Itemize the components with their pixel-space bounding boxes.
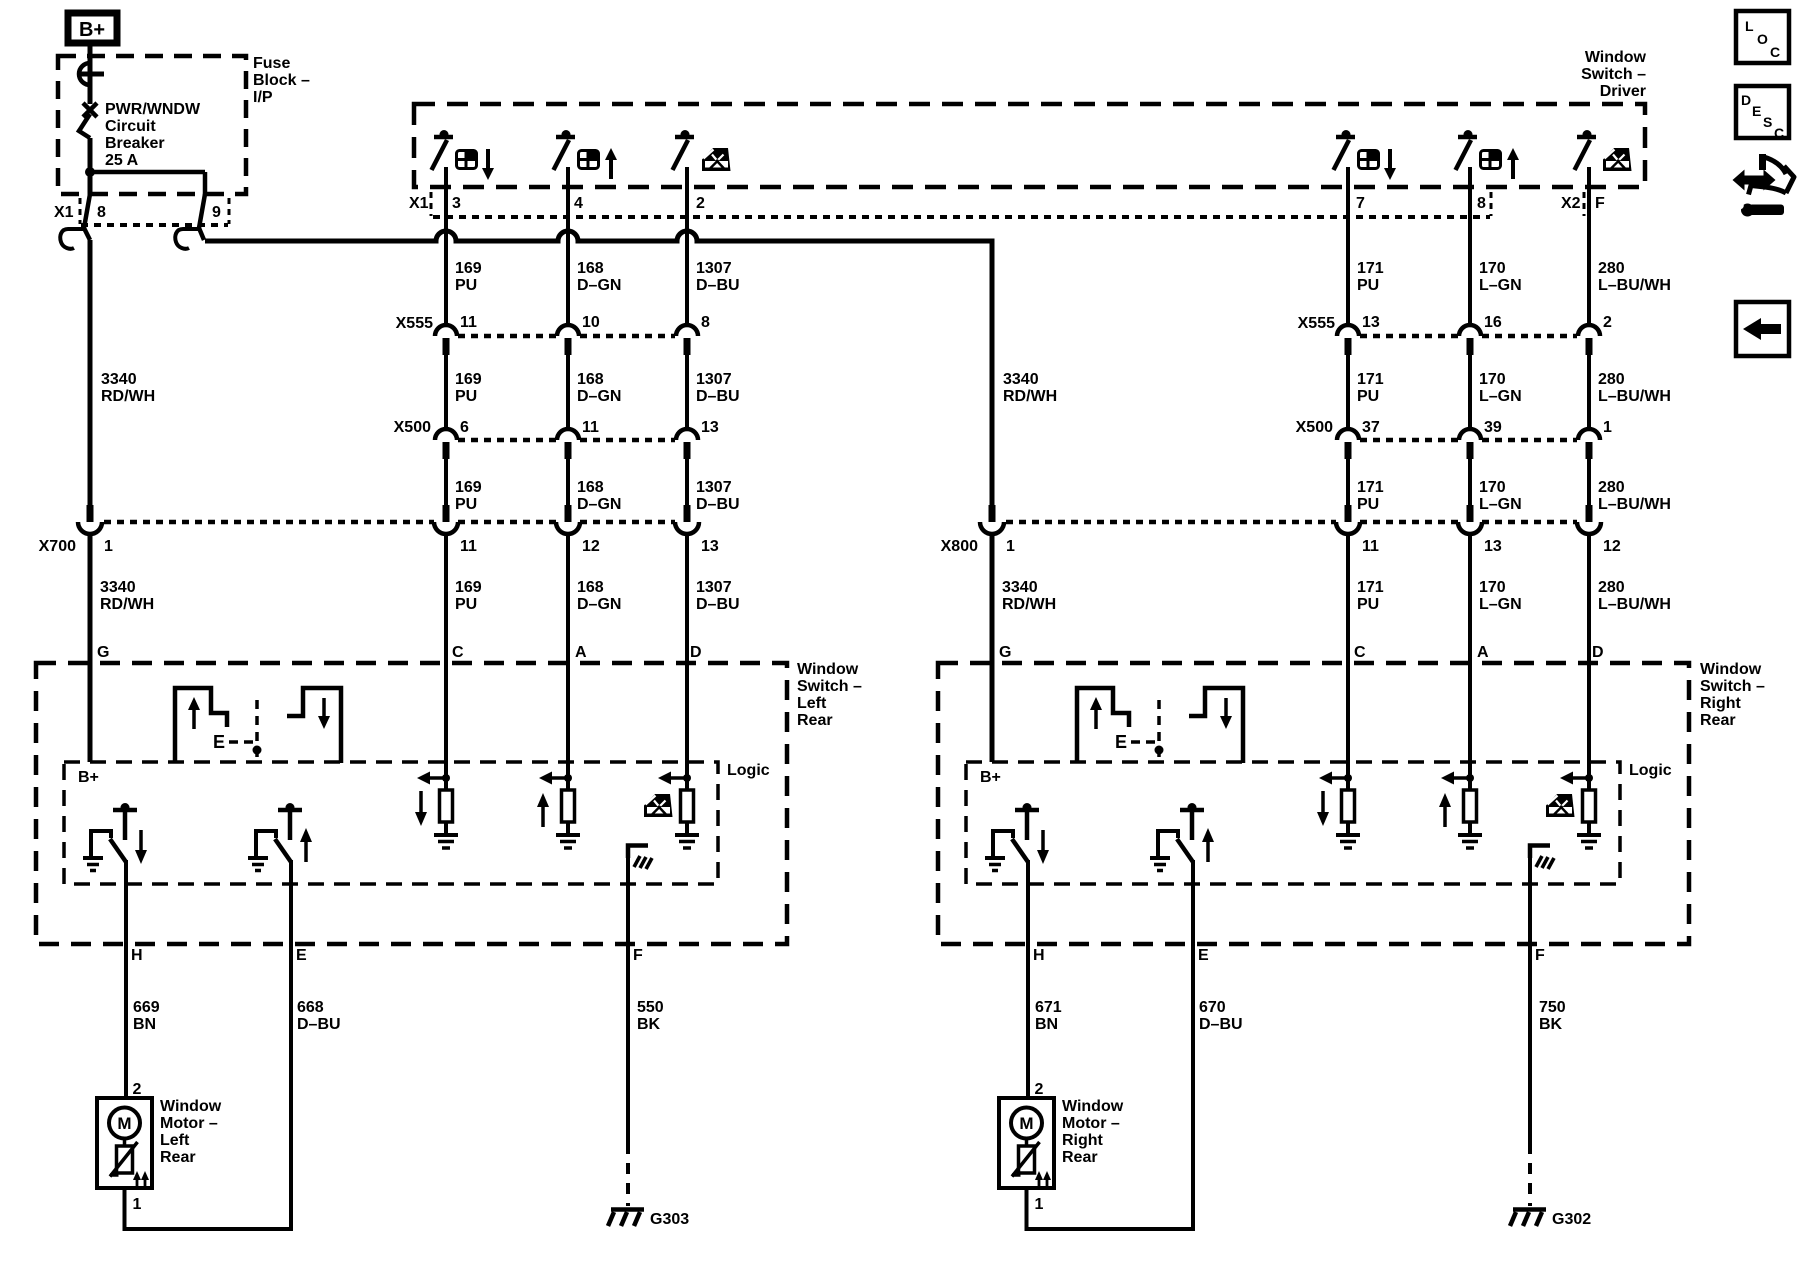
switch contact up Left rear (to pin E) bbox=[248, 803, 312, 871]
label 3340 RD/WH left lower bbox=[100, 579, 154, 613]
connector X555 terminal at 13 bbox=[1337, 325, 1359, 355]
svg-text:169: 169 bbox=[455, 579, 482, 596]
label PWR/WNDW Circuit Breaker 25 A bbox=[105, 101, 201, 169]
wire 1307 D&#8211;BU into rear switch box bbox=[685, 535, 689, 790]
label 1307 D&#8211;BU level 4 bbox=[696, 579, 740, 613]
wire 171 PU into rear switch box bbox=[1346, 535, 1350, 790]
logic dashed box Left rear bbox=[64, 762, 718, 884]
terminal jog and hook at fuse pin 9 bbox=[175, 194, 205, 249]
svg-text:G302: G302 bbox=[1552, 1211, 1591, 1228]
connector X555 terminal at 2 bbox=[1578, 325, 1600, 355]
svg-text:Fuse: Fuse bbox=[253, 55, 290, 72]
DESC reference box icon bbox=[1736, 86, 1789, 141]
express window icon marker Left rear logic bbox=[644, 794, 673, 817]
svg-text:L–GN: L–GN bbox=[1479, 596, 1522, 613]
internal ground col 1 Right rear bbox=[1336, 835, 1360, 848]
svg-text:PU: PU bbox=[1357, 596, 1379, 613]
wire 168 D&#8211;GN into rear switch box bbox=[566, 535, 570, 790]
label 171 PU level 1 bbox=[1357, 260, 1384, 294]
svg-text:1307: 1307 bbox=[696, 260, 732, 277]
switch contact down Right rear (to pin H) bbox=[985, 803, 1049, 871]
circuit breaker PWR/WNDW 25 A symbol bbox=[79, 103, 97, 138]
logic input arrow col 2 Left rear bbox=[539, 772, 568, 785]
svg-text:RD/WH: RD/WH bbox=[1003, 388, 1057, 405]
svg-text:171: 171 bbox=[1357, 579, 1384, 596]
svg-text:Rear: Rear bbox=[160, 1149, 196, 1166]
wire resistor to internal ground col 2 Left rear bbox=[566, 822, 570, 835]
svg-text:Rear: Rear bbox=[797, 712, 833, 729]
svg-text:L–BU/WH: L–BU/WH bbox=[1598, 388, 1671, 405]
window switch Right rear dashed box bbox=[938, 663, 1689, 944]
junction node breaker output bbox=[85, 167, 95, 177]
svg-text:3340: 3340 bbox=[100, 579, 136, 596]
svg-text:Window: Window bbox=[160, 1098, 222, 1115]
logic input arrow col 2 Right rear bbox=[1441, 772, 1470, 785]
svg-text:12: 12 bbox=[1603, 538, 1621, 555]
svg-text:668: 668 bbox=[297, 999, 324, 1016]
svg-text:M: M bbox=[1019, 1114, 1033, 1133]
svg-text:RD/WH: RD/WH bbox=[1002, 596, 1056, 613]
label 169 PU level 3 bbox=[455, 479, 482, 513]
window motor Left rear box bbox=[97, 1098, 152, 1188]
svg-text:168: 168 bbox=[577, 479, 604, 496]
window switch driver dashed box bbox=[414, 104, 1645, 187]
connector X700 terminal on left feed wire bbox=[78, 505, 102, 534]
window switch Left rear dashed box bbox=[36, 663, 787, 944]
svg-text:PU: PU bbox=[455, 596, 477, 613]
label 169 PU level 2 bbox=[455, 371, 482, 405]
driver switch window-down contact (pin 7) bbox=[1334, 130, 1356, 170]
svg-text:280: 280 bbox=[1598, 260, 1625, 277]
label 1307 D&#8211;BU level 1 bbox=[696, 260, 740, 294]
svg-text:39: 39 bbox=[1484, 419, 1502, 436]
label 280 L&#8211;BU/WH level 3 bbox=[1598, 479, 1671, 513]
motor M symbol Right rear bbox=[1011, 1108, 1042, 1139]
connector X500 terminal at 1 bbox=[1578, 429, 1600, 459]
label 3340 RD/WH right lower bbox=[1002, 579, 1056, 613]
label 1307 D&#8211;BU level 2 bbox=[696, 371, 740, 405]
svg-text:D–BU: D–BU bbox=[1199, 1016, 1243, 1033]
driver switch express-down contact (pin F) bbox=[1575, 130, 1597, 170]
svg-text:16: 16 bbox=[1484, 314, 1502, 331]
svg-text:170: 170 bbox=[1479, 579, 1506, 596]
connector X500 terminal at 11 bbox=[557, 429, 579, 459]
svg-text:Motor –: Motor – bbox=[1062, 1115, 1120, 1132]
wire 670 D&#8211;BU switch to motor return bbox=[1191, 860, 1195, 1229]
window down icon at driver pin 3 switch bbox=[455, 149, 494, 180]
wire 3340 RD/WH right feed drop bbox=[990, 239, 995, 506]
wire 280 L&#8211;BU/WH from driver switch down bbox=[1587, 167, 1591, 326]
logic dashed box Right rear bbox=[966, 762, 1620, 884]
svg-text:E: E bbox=[213, 732, 225, 752]
svg-text:G: G bbox=[999, 644, 1011, 661]
window down icon at driver pin 7 switch bbox=[1357, 149, 1396, 180]
wire breaker output down to pin 8 bbox=[88, 138, 93, 196]
motor M symbol Left rear bbox=[109, 1108, 140, 1139]
svg-text:Right: Right bbox=[1062, 1132, 1104, 1149]
svg-text:BN: BN bbox=[1035, 1016, 1058, 1033]
svg-text:11: 11 bbox=[582, 419, 599, 436]
svg-text:1307: 1307 bbox=[696, 479, 732, 496]
svg-text:L–GN: L–GN bbox=[1479, 496, 1522, 513]
svg-text:PU: PU bbox=[1357, 388, 1379, 405]
wire 3340 RD/WH X800 to right rear switch bbox=[990, 535, 995, 762]
svg-text:B+: B+ bbox=[79, 19, 105, 41]
svg-text:E: E bbox=[296, 947, 307, 964]
svg-text:11: 11 bbox=[460, 314, 477, 331]
express window icon at driver pin F switch bbox=[1603, 148, 1632, 171]
svg-text:C: C bbox=[1354, 644, 1366, 661]
svg-text:Right: Right bbox=[1700, 695, 1742, 712]
logic input arrow col 1 Left rear bbox=[417, 772, 446, 785]
svg-text:8: 8 bbox=[1477, 195, 1486, 212]
label 670 D&#8211;BU bbox=[1199, 999, 1243, 1033]
connector X500 right dotted band bbox=[1296, 419, 1577, 440]
svg-text:8: 8 bbox=[701, 314, 710, 331]
svg-text:A: A bbox=[1477, 644, 1489, 661]
wire 171 PU X555 to X500 bbox=[1346, 355, 1350, 430]
wire 168 D&#8211;GN from driver switch down bbox=[566, 167, 570, 326]
LOC reference box icon bbox=[1736, 11, 1789, 63]
svg-text:1307: 1307 bbox=[696, 579, 732, 596]
label 3340 RD/WH left upper bbox=[101, 371, 155, 405]
connector X800 terminal on right feed wire bbox=[980, 505, 1004, 534]
svg-text:E: E bbox=[1198, 947, 1209, 964]
svg-text:D–BU: D–BU bbox=[297, 1016, 341, 1033]
svg-text:D–GN: D–GN bbox=[577, 596, 621, 613]
label 170 L&#8211;GN level 1 bbox=[1479, 260, 1522, 294]
svg-text:RD/WH: RD/WH bbox=[101, 388, 155, 405]
svg-text:170: 170 bbox=[1479, 479, 1506, 496]
connector X1 fuse block band bbox=[54, 198, 229, 225]
svg-text:D–GN: D–GN bbox=[577, 496, 621, 513]
connector X555 right dotted band bbox=[1298, 315, 1577, 336]
label Window Motor Left Rear bbox=[160, 1098, 222, 1166]
svg-text:13: 13 bbox=[701, 538, 719, 555]
logic resistor col 2 Right rear bbox=[1464, 790, 1477, 822]
svg-text:X500: X500 bbox=[1296, 419, 1333, 436]
svg-text:F: F bbox=[633, 947, 643, 964]
logic signal ground symbol Right rear bbox=[1530, 846, 1554, 870]
svg-text:M: M bbox=[117, 1114, 131, 1133]
cam profile down Right rear switch bbox=[1189, 688, 1243, 763]
svg-text:280: 280 bbox=[1598, 579, 1625, 596]
connector X2 driver bbox=[1561, 192, 1584, 216]
svg-text:12: 12 bbox=[582, 538, 600, 555]
connector X555 terminal at 16 bbox=[1459, 325, 1481, 355]
connector X500 terminal at 13 bbox=[676, 429, 698, 459]
svg-text:PU: PU bbox=[1357, 496, 1379, 513]
svg-text:I/P: I/P bbox=[253, 89, 273, 106]
svg-text:Window: Window bbox=[797, 661, 859, 678]
svg-text:L: L bbox=[1745, 18, 1754, 34]
svg-text:Motor –: Motor – bbox=[160, 1115, 218, 1132]
label 171 PU level 2 bbox=[1357, 371, 1384, 405]
bus wire 3340 RD/WH from pin 9 across to right side with crossover hops bbox=[205, 231, 992, 241]
wire 170 L&#8211;GN into rear switch box bbox=[1468, 535, 1472, 790]
connector X555 left dotted band bbox=[396, 315, 675, 336]
connector terminal at rear band pin 13 bbox=[675, 505, 699, 534]
svg-text:BK: BK bbox=[637, 1016, 661, 1033]
wire 1307 D&#8211;BU X555 to X500 bbox=[685, 355, 689, 430]
svg-text:PU: PU bbox=[455, 496, 477, 513]
svg-text:G: G bbox=[97, 644, 109, 661]
svg-text:F: F bbox=[1595, 195, 1605, 212]
wire 169 PU into rear switch box bbox=[444, 535, 448, 790]
wire 168 D&#8211;GN X555 to X500 bbox=[566, 355, 570, 430]
internal ground col 2 Left rear bbox=[556, 835, 580, 848]
svg-text:11: 11 bbox=[460, 538, 477, 555]
driver switch window-up contact (pin 8) bbox=[1456, 130, 1478, 170]
label 170 L&#8211;GN level 4 bbox=[1479, 579, 1522, 613]
svg-text:1: 1 bbox=[1035, 1196, 1044, 1213]
svg-text:L–BU/WH: L–BU/WH bbox=[1598, 496, 1671, 513]
label 169 PU level 1 bbox=[455, 260, 482, 294]
logic resistor col 1 Right rear bbox=[1342, 790, 1355, 822]
connector X555 terminal at 8 bbox=[676, 325, 698, 355]
logic resistor col 1 Left rear bbox=[440, 790, 453, 822]
svg-text:6: 6 bbox=[460, 419, 469, 436]
wire 170 L&#8211;GN X555 to X500 bbox=[1468, 355, 1472, 430]
connector terminal at rear band pin 13 bbox=[1458, 505, 1482, 534]
svg-text:9: 9 bbox=[212, 204, 221, 221]
svg-text:D–BU: D–BU bbox=[696, 277, 740, 294]
label 671 BN bbox=[1035, 999, 1062, 1033]
svg-text:Logic: Logic bbox=[1629, 762, 1672, 779]
power feed terminal B+ bbox=[68, 13, 117, 43]
connector terminal at rear band pin 12 bbox=[1577, 505, 1601, 534]
node E pointer Left rear switch bbox=[213, 700, 262, 763]
svg-text:B+: B+ bbox=[78, 769, 99, 786]
svg-text:3340: 3340 bbox=[1002, 579, 1038, 596]
svg-text:169: 169 bbox=[455, 371, 482, 388]
express window icon marker Right rear logic bbox=[1546, 794, 1575, 817]
label 3340 RD/WH right upper bbox=[1003, 371, 1057, 405]
wire 3340 RD/WH left feed X1 to X700 bbox=[88, 240, 93, 505]
label 1307 D&#8211;BU level 3 bbox=[696, 479, 740, 513]
svg-text:O: O bbox=[1757, 31, 1768, 47]
svg-text:G303: G303 bbox=[650, 1211, 689, 1228]
svg-text:D–BU: D–BU bbox=[696, 496, 740, 513]
connector X700 dotted band and label bbox=[39, 522, 675, 555]
motor thermal protector Right rear bbox=[1012, 1139, 1051, 1190]
wire resistor to internal ground col 2 Right rear bbox=[1468, 822, 1472, 835]
svg-text:670: 670 bbox=[1199, 999, 1226, 1016]
svg-text:2: 2 bbox=[696, 195, 705, 212]
wire 169 PU X555 to X500 bbox=[444, 355, 448, 430]
wire 280 L&#8211;BU/WH into rear switch box bbox=[1587, 535, 1591, 790]
switch contact up Right rear (to pin E) bbox=[1150, 803, 1214, 871]
svg-text:Rear: Rear bbox=[1700, 712, 1736, 729]
label 168 D&#8211;GN level 3 bbox=[577, 479, 621, 513]
cam profile down Left rear switch bbox=[287, 688, 341, 763]
svg-text:D–GN: D–GN bbox=[577, 388, 621, 405]
svg-text:170: 170 bbox=[1479, 371, 1506, 388]
internal ground col 1 Left rear bbox=[434, 835, 458, 848]
back arrow box icon bbox=[1736, 302, 1789, 356]
wire 1307 D&#8211;BU X500 to rear connector bbox=[685, 459, 689, 506]
svg-text:671: 671 bbox=[1035, 999, 1062, 1016]
svg-text:2: 2 bbox=[1603, 314, 1612, 331]
label Fuse Block I/P bbox=[253, 55, 310, 106]
svg-text:X1: X1 bbox=[54, 204, 74, 221]
svg-text:Window: Window bbox=[1062, 1098, 1124, 1115]
wire 550 BK from pin F down bbox=[626, 846, 630, 1143]
wire 1307 D&#8211;BU from driver switch down bbox=[685, 167, 689, 326]
wire 171 PU X500 to rear connector bbox=[1346, 459, 1350, 506]
svg-text:13: 13 bbox=[1362, 314, 1380, 331]
svg-text:168: 168 bbox=[577, 579, 604, 596]
svg-text:H: H bbox=[131, 947, 143, 964]
svg-text:1: 1 bbox=[133, 1196, 142, 1213]
svg-text:2: 2 bbox=[1035, 1081, 1044, 1098]
internal ground col 3 Left rear bbox=[675, 835, 699, 848]
svg-text:7: 7 bbox=[1356, 195, 1365, 212]
wire B+ feed down into fuse block bbox=[88, 46, 93, 104]
label 550 BK bbox=[637, 999, 664, 1033]
window up icon at driver pin 4 switch bbox=[577, 148, 617, 179]
logic input junction node col 2 Right rear bbox=[1466, 774, 1474, 782]
svg-text:C: C bbox=[1770, 44, 1780, 60]
svg-text:Left: Left bbox=[160, 1132, 190, 1149]
connector X500 left dotted band bbox=[394, 419, 675, 440]
svg-text:C: C bbox=[1774, 125, 1784, 141]
logic resistor col 2 Left rear bbox=[562, 790, 575, 822]
svg-text:RD/WH: RD/WH bbox=[100, 596, 154, 613]
wire motor return Left rear bbox=[123, 1188, 294, 1229]
svg-text:280: 280 bbox=[1598, 371, 1625, 388]
connector terminal at rear band pin 12 bbox=[556, 505, 580, 534]
label Window Switch Right Rear bbox=[1700, 661, 1765, 729]
label 280 L&#8211;BU/WH level 2 bbox=[1598, 371, 1671, 405]
label 169 PU level 4 bbox=[455, 579, 482, 613]
svg-text:X700: X700 bbox=[39, 538, 76, 555]
svg-text:8: 8 bbox=[97, 204, 106, 221]
window up icon at driver pin 8 switch bbox=[1479, 148, 1519, 179]
connector X1 driver band bbox=[409, 192, 1491, 217]
wire 171 PU from driver switch down bbox=[1346, 167, 1350, 326]
label 668 D&#8211;BU bbox=[297, 999, 341, 1033]
down arrow marker col 1 Left rear bbox=[415, 791, 427, 826]
svg-text:X500: X500 bbox=[394, 419, 431, 436]
svg-text:X800: X800 bbox=[941, 538, 978, 555]
motor thermal protector Left rear bbox=[110, 1139, 149, 1190]
logic input arrow col 1 Right rear bbox=[1319, 772, 1348, 785]
svg-text:669: 669 bbox=[133, 999, 160, 1016]
svg-text:Switch –: Switch – bbox=[1700, 678, 1765, 695]
svg-text:168: 168 bbox=[577, 371, 604, 388]
window motor Right rear box bbox=[999, 1098, 1054, 1188]
svg-text:X2: X2 bbox=[1561, 195, 1581, 212]
connector X500 terminal at 6 bbox=[435, 429, 457, 459]
logic input arrow col 3 Right rear bbox=[1560, 772, 1589, 785]
dashed wire to ground G303 bbox=[626, 1143, 630, 1206]
navigation arrows and wrench icon bbox=[1733, 154, 1795, 217]
svg-text:13: 13 bbox=[1484, 538, 1502, 555]
up arrow marker col 2 Right rear bbox=[1439, 793, 1451, 827]
svg-text:D: D bbox=[1741, 92, 1751, 108]
svg-text:169: 169 bbox=[455, 479, 482, 496]
logic resistor col 3 Right rear bbox=[1583, 790, 1596, 822]
driver switch window-up contact (pin 4) bbox=[554, 130, 576, 170]
wire 668 D&#8211;BU switch to motor return bbox=[289, 860, 293, 1229]
svg-text:Left: Left bbox=[797, 695, 827, 712]
wire resistor to internal ground col 1 Left rear bbox=[444, 822, 448, 835]
down arrow marker col 1 Right rear bbox=[1317, 791, 1329, 826]
svg-text:D–BU: D–BU bbox=[696, 388, 740, 405]
wire 669 BN switch to window motor bbox=[124, 860, 128, 1099]
connector X800 dotted band and label bbox=[941, 522, 1577, 555]
svg-text:L–BU/WH: L–BU/WH bbox=[1598, 277, 1671, 294]
svg-text:Breaker: Breaker bbox=[105, 135, 165, 152]
label 168 D&#8211;GN level 2 bbox=[577, 371, 621, 405]
terminal jog and hook at fuse pin 8 bbox=[60, 194, 90, 249]
svg-text:A: A bbox=[575, 644, 587, 661]
svg-text:BK: BK bbox=[1539, 1016, 1563, 1033]
svg-text:F: F bbox=[1535, 947, 1545, 964]
express window icon at driver pin 2 switch bbox=[702, 148, 731, 171]
svg-text:Block –: Block – bbox=[253, 72, 310, 89]
cam profile up Left rear switch bbox=[175, 688, 227, 763]
svg-text:H: H bbox=[1033, 947, 1045, 964]
wire 280 L&#8211;BU/WH X500 to rear connector bbox=[1587, 459, 1591, 506]
svg-text:D–BU: D–BU bbox=[696, 596, 740, 613]
label 280 L&#8211;BU/WH level 4 bbox=[1598, 579, 1671, 613]
svg-text:3: 3 bbox=[452, 195, 461, 212]
svg-text:D–GN: D–GN bbox=[577, 277, 621, 294]
up arrow marker col 2 Left rear bbox=[537, 793, 549, 827]
svg-text:3340: 3340 bbox=[101, 371, 137, 388]
svg-text:25 A: 25 A bbox=[105, 152, 139, 169]
svg-text:Window: Window bbox=[1700, 661, 1762, 678]
svg-text:PU: PU bbox=[1357, 277, 1379, 294]
wire resistor to internal ground col 3 Right rear bbox=[1587, 822, 1591, 835]
svg-text:3340: 3340 bbox=[1003, 371, 1039, 388]
label Window Switch Driver bbox=[1581, 49, 1646, 100]
svg-text:10: 10 bbox=[582, 314, 600, 331]
label 750 BK bbox=[1539, 999, 1566, 1033]
logic input arrow col 3 Left rear bbox=[658, 772, 687, 785]
svg-text:C: C bbox=[452, 644, 464, 661]
label 168 D&#8211;GN level 1 bbox=[577, 260, 621, 294]
svg-text:PWR/WNDW: PWR/WNDW bbox=[105, 101, 201, 118]
label Window Switch Left Rear bbox=[797, 661, 862, 729]
label 170 L&#8211;GN level 2 bbox=[1479, 371, 1522, 405]
svg-text:2: 2 bbox=[133, 1081, 142, 1098]
svg-text:X555: X555 bbox=[1298, 315, 1335, 332]
wire motor return Right rear bbox=[1025, 1188, 1196, 1229]
connector X500 terminal at 39 bbox=[1459, 429, 1481, 459]
wire resistor to internal ground col 3 Left rear bbox=[685, 822, 689, 835]
logic input junction node col 1 Right rear bbox=[1344, 774, 1352, 782]
fuse block female terminal at B+ entry bbox=[78, 63, 104, 85]
svg-text:L–GN: L–GN bbox=[1479, 388, 1522, 405]
wire 169 PU from driver switch down bbox=[444, 167, 448, 326]
wire 671 BN switch to window motor bbox=[1026, 860, 1030, 1099]
label 168 D&#8211;GN level 4 bbox=[577, 579, 621, 613]
logic input junction node col 1 Left rear bbox=[442, 774, 450, 782]
connector X500 terminal at 37 bbox=[1337, 429, 1359, 459]
svg-text:171: 171 bbox=[1357, 260, 1384, 277]
svg-text:170: 170 bbox=[1479, 260, 1506, 277]
svg-text:171: 171 bbox=[1357, 479, 1384, 496]
svg-text:1: 1 bbox=[1603, 419, 1612, 436]
logic signal ground symbol Left rear bbox=[628, 846, 652, 870]
svg-text:1307: 1307 bbox=[696, 371, 732, 388]
wire breaker output to fuse pin 9 bbox=[88, 172, 205, 196]
svg-text:L–GN: L–GN bbox=[1479, 277, 1522, 294]
label 171 PU level 3 bbox=[1357, 479, 1384, 513]
